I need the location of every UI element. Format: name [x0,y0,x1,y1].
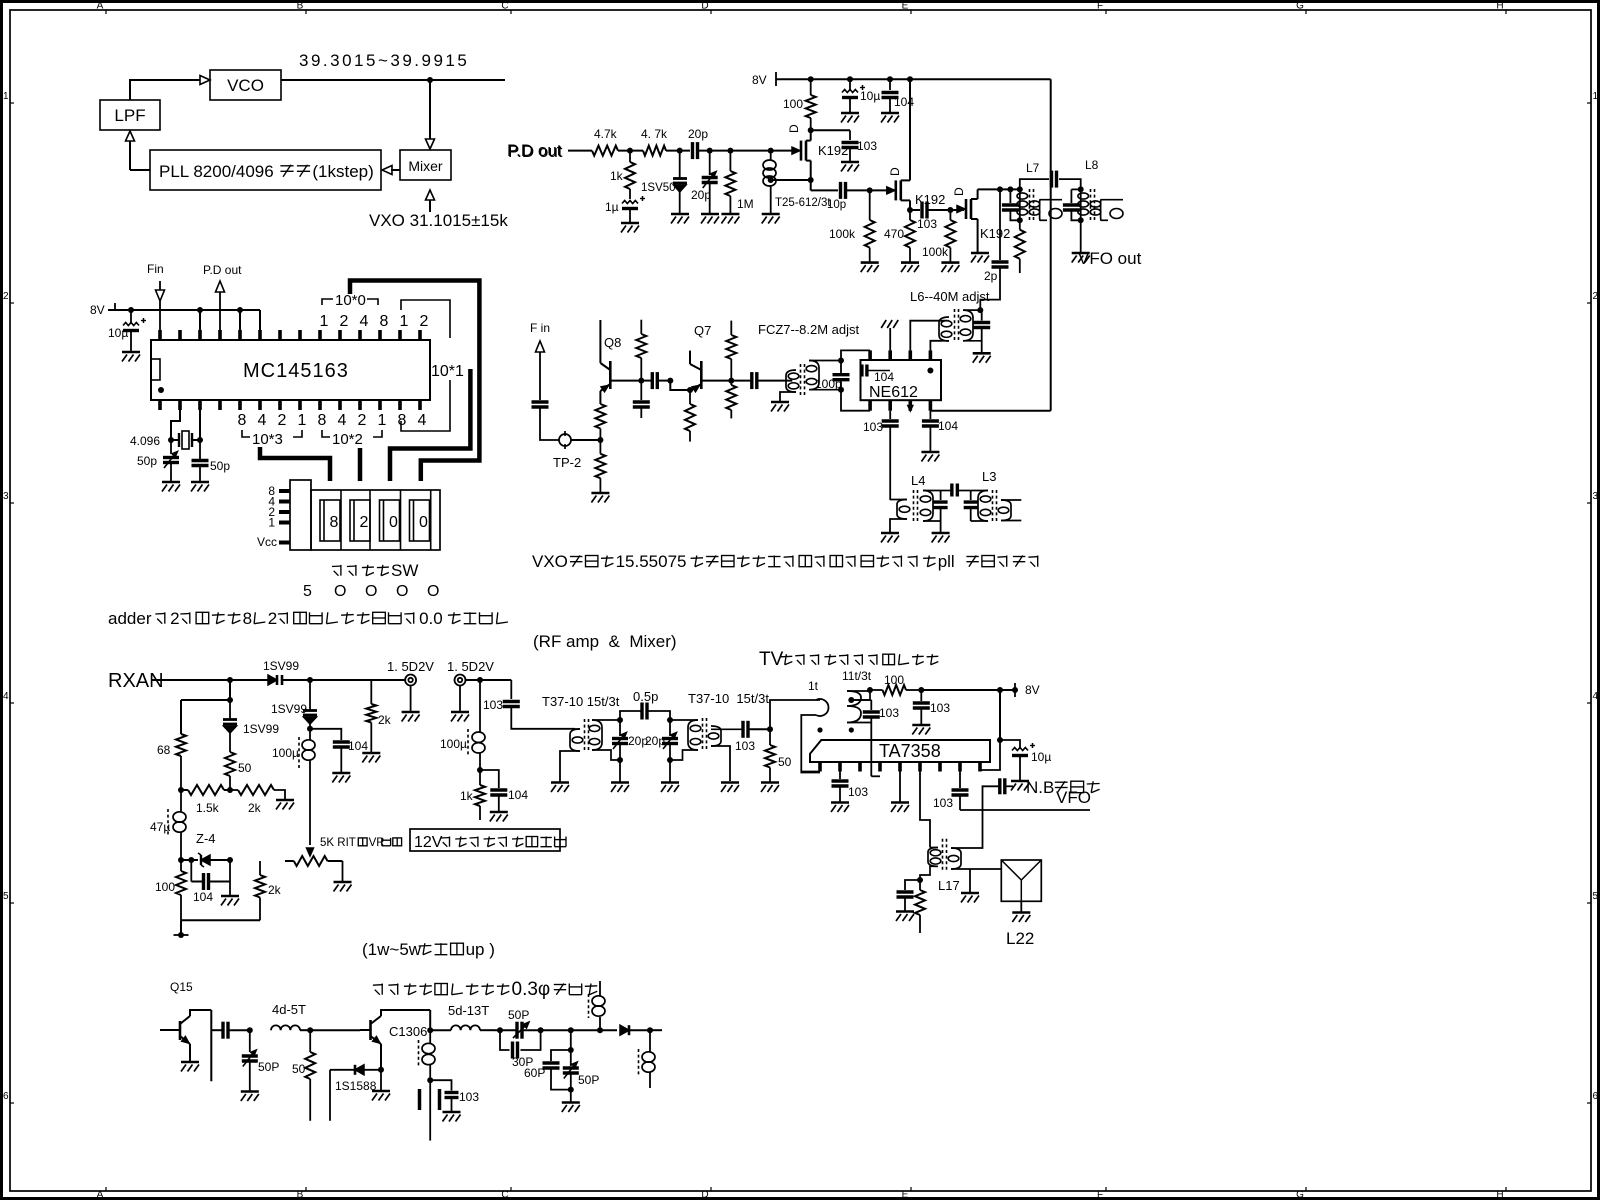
junction bottom common [178,932,184,938]
choke collector [419,1030,436,1080]
svg-text:50P: 50P [508,1008,529,1022]
transformer T37-10b link [708,726,741,781]
value 100 left [155,880,175,894]
junction T25-6 tap [768,177,774,183]
value 103 drain [857,139,877,153]
switch divider [430,490,432,550]
resistor 1.5k [181,785,230,795]
value 20p [688,127,708,141]
wire vcc to pin9 [980,740,1000,770]
wire tank pa ground [570,1090,572,1102]
pin TA7358 6 [918,762,922,772]
wire 50 to balun [770,700,820,729]
pin top 8 MC145163 [298,330,302,340]
value 100 ta [884,673,904,687]
junction Q8 emitter node [597,437,603,443]
wire 2p riser [999,189,1001,260]
ground pin5 [891,803,909,813]
capacitor 103 pin2 [832,772,849,803]
svg-text:103: 103 [857,139,877,153]
IC MC145163 [151,340,430,400]
wire RXAN line [152,679,268,681]
switch pin label 2 [268,505,275,519]
svg-text:2k: 2k [378,713,392,727]
pin label top 1 [400,313,409,330]
junction K1 source [808,177,814,183]
resistor 68 [176,734,186,790]
IC TA7358 [810,740,990,762]
wire tank to rfc [571,1029,600,1031]
ground L22 [1012,913,1030,923]
svg-text:L3: L3 [982,469,996,484]
pin label top 2 [340,313,349,330]
value 104 rxan [348,739,368,753]
switch body main [311,490,440,550]
svg-text:3: 3 [1593,491,1599,502]
junction crystal left [168,437,174,443]
svg-text:SW: SW [391,561,418,580]
transistor C1306 [360,1010,430,1070]
label L17 [938,878,960,893]
wire 103 to gate3 [928,209,964,211]
wire 8V drop ta [999,690,1001,740]
pin top 11 MC145163 [358,330,362,340]
wire coupling to L8 [1059,179,1081,189]
core L7 [1030,189,1034,220]
frame row label 6 right [1587,1091,1599,1103]
frame row label 1 left [3,91,14,103]
label VFO [1056,788,1091,807]
ground 2k rit [276,800,294,810]
ground zener [221,896,239,906]
value T25-6 [775,197,805,209]
value 2k top [378,713,392,727]
svg-text:2k: 2k [268,883,282,897]
wire from P.D out [568,150,592,152]
inductor 4d-5T [271,1025,310,1030]
resistor L7 bottom [1015,220,1025,273]
value 1SV99 shunt2 [271,702,307,716]
transformer L4 primary [890,500,910,520]
frame row label 3 left [3,491,14,503]
wire diode down [329,1070,331,1121]
junction 1M node [727,148,733,154]
ground T37b link [721,783,739,793]
resistor 100k first [865,190,875,262]
pin label bottom 1 [298,412,307,429]
wire connector2 right [466,679,512,681]
pin bottom MC145163 2 [178,400,182,410]
wire VCO output [281,79,505,81]
svg-text:6: 6 [1593,1091,1599,1102]
frame column label A top [97,1,106,15]
svg-text:47µ: 47µ [150,820,170,834]
svg-text:103: 103 [483,698,503,712]
wire 8V to pin3 [199,310,201,330]
svg-text:15.55075: 15.55075 [616,552,687,571]
ground below TP [591,493,609,503]
pin top 14 MC145163 [418,330,422,340]
resistor 1M [725,151,735,214]
inductor L8 primary [1078,189,1089,220]
value 103 pin2 [848,785,868,799]
svg-text:Q8: Q8 [604,335,621,350]
wire 104 branch [310,729,341,740]
svg-text:50: 50 [778,755,792,769]
svg-text:60P: 60P [524,1066,545,1080]
frame column label G bottom [1296,1187,1306,1200]
label 1t [808,679,819,693]
capacitor bias L17 [897,892,914,911]
switch digit window 8 [320,500,340,541]
block VCO [210,70,281,100]
value 50 pa [292,1062,306,1076]
resistor Q7 emitter [685,390,695,442]
value K192 first [818,143,848,158]
svg-text:NE612: NE612 [869,384,918,401]
wire source2 right [910,209,920,211]
svg-text:100µ: 100µ [440,737,467,751]
value 20p tank1 [628,734,648,748]
wire connector1 ground [410,686,412,713]
svg-text:1k: 1k [460,789,474,803]
capacitor Q8 base down [633,381,650,418]
capacitor 0.5p [620,703,670,721]
label P.D out (IC) [203,263,242,277]
transistor K192 second [887,79,910,210]
balun winding 11t3t [847,691,871,723]
label L6 adjust [910,289,990,304]
wire 104 feed branch [480,770,499,788]
frame column label D bottom [701,1187,711,1200]
svg-text:100: 100 [155,880,175,894]
svg-text:N.B: N.B [1026,778,1054,797]
frame row label 3 right [1587,491,1599,503]
pin bottom MC145163 14 [418,400,422,410]
capacitor 103 series rf [743,721,770,738]
balun winding 1t [801,699,828,773]
trimmer 20p tank1 [612,720,628,760]
junction tank2 bottom [667,757,673,763]
svg-text:68: 68 [157,743,171,757]
choke 100u feed [468,680,485,770]
junction L17 bias [917,877,923,883]
svg-text:G: G [1296,1190,1304,1200]
label 1.5D2V second [447,659,494,674]
svg-text:VXO: VXO [532,552,573,571]
arrow into Mixer [426,139,435,149]
label NB circuit [1026,778,1100,797]
svg-text:B: B [297,1,304,12]
wire NE612 pin5 to FCZ7 [841,390,870,411]
svg-text:O: O [365,583,377,600]
value 47u [150,820,170,834]
wire cap to gate [698,150,793,152]
junction coupling node [667,378,673,384]
svg-text:D: D [888,167,902,176]
label VXO 31.1015 [369,211,508,230]
ground 50 rf [761,783,779,793]
svg-text:VXO 31.1015±15k: VXO 31.1015±15k [369,211,508,230]
inductor L8 secondary [1090,200,1123,221]
svg-text:20p: 20p [691,188,711,202]
capacitor 60P [543,1050,571,1090]
wire L22 ground [1020,901,1022,912]
label 10*0 [335,292,366,309]
svg-text:C1306: C1306 [389,1024,427,1039]
svg-text:L7: L7 [1026,161,1040,175]
pin TA7358 9 [978,762,982,772]
value 50P tank [578,1073,599,1087]
junction 1k feed [477,767,483,773]
svg-text:470: 470 [884,227,904,241]
capacitor 103 pin8 [952,772,969,811]
resistor 2k bottom [255,861,265,920]
ground L4 secondary [932,533,950,543]
svg-text:1: 1 [378,412,387,429]
wire NE612 pin4 riser [930,341,943,351]
svg-text:50P: 50P [578,1073,599,1087]
note VXO circuit reuse [532,552,1038,571]
junction tank pa mid [568,1047,574,1053]
ground 103 pa [443,1112,461,1122]
pin bottom MC145163 13 [398,400,402,410]
connector 1.5D2V second [455,675,466,686]
label P.D out (block diagram) [507,141,562,160]
varactor 1SV99 series [268,675,310,685]
frame column label E bottom [902,1187,911,1200]
svg-text:L17: L17 [938,878,960,893]
value 1.5k [196,801,220,815]
label RXAN [108,670,164,692]
capacitor L4-L3 coupling [941,484,971,497]
svg-text:2: 2 [268,609,277,628]
label 10*2 [332,431,363,448]
svg-text:(1kstep): (1kstep) [312,162,373,181]
wire ta 8V rail [921,683,1015,697]
IC NE612 [861,360,942,401]
junction 100k node [867,187,873,193]
testpoint TP-2 [559,431,571,449]
label T37-10 second [688,691,769,706]
frame row label 2 right [1587,291,1599,303]
ground 10u [122,352,140,362]
switch digit window 0 [410,500,430,541]
switch pin stub [279,541,290,545]
capacitor 1u [622,196,645,223]
resistor 470 [905,210,915,263]
junction rail 104 [887,76,893,82]
wire NE612 pin3 riser [910,321,946,351]
core FCZ7 [801,364,805,395]
resistor 2k top [366,680,376,753]
pin label bottom 2 [358,412,367,429]
ground 1M [721,214,739,224]
ground T37a link [551,783,569,793]
pin TA7358 7 [938,762,942,772]
capacitor 10u rail [842,79,865,113]
svg-text:2: 2 [420,313,429,330]
pin top 3 MC145163 [198,330,202,340]
block Mixer [400,150,451,180]
capacitor 30P [500,1030,541,1058]
resistor 100k second [945,210,955,263]
junction L8 top [1078,186,1084,192]
wire output right [650,1029,662,1031]
pin label top 4 [360,313,369,330]
svg-text:TA7358: TA7358 [879,741,941,761]
frame column label A bottom [97,1187,106,1200]
svg-text:E: E [902,1,909,12]
zener diode [198,853,230,867]
block LPF [100,100,160,130]
wire connector2 ground [459,686,461,713]
ground 1u [621,223,639,233]
pin TA7358 8 [958,762,962,772]
wire 8V to pin5 [239,310,241,330]
wire zener row [181,859,198,861]
wire 8V rail [108,303,260,310]
svg-text:F: F [1097,1190,1103,1200]
label TV antenna balun core [759,649,938,670]
label L3 [982,469,996,484]
pin TA7358 3 [858,762,862,772]
svg-text:2: 2 [358,412,367,429]
value 20p tank2 [645,734,665,748]
switch pin label 1 [268,516,275,530]
svg-text:4d-5T: 4d-5T [272,1002,306,1017]
svg-text:4: 4 [360,313,369,330]
ground FCZ7 [771,402,789,412]
junction zener right [227,857,233,863]
junction left branch [227,697,233,703]
wire Q7 base [701,380,731,382]
ground 10u ta [1011,781,1029,791]
label Z-4 [196,831,216,846]
wire L7 coupling top [1020,179,1049,189]
pin NE612 top 1 [868,350,872,360]
ground connector1 [402,712,420,722]
value 103 feed [483,698,503,712]
pin top 13 MC145163 [398,330,402,340]
value 100u feed [440,737,467,751]
wire TP to emitter node [571,439,600,441]
junction 8V pin3 [197,307,203,313]
svg-text:1k: 1k [610,169,624,183]
switch pin stub [279,510,290,514]
switch digit window 0 [380,500,400,541]
svg-text:B: B [297,1190,304,1200]
svg-text:1: 1 [268,516,275,530]
label L22 [1006,929,1034,948]
wire FCZ7 to NE612 pin1 [841,350,870,360]
junction ta rail 8v [1012,687,1018,693]
capacitor 103 series [922,202,927,219]
svg-text:103: 103 [735,739,755,753]
label FCZ7 adjust [758,322,860,337]
wire 8V rail right [776,72,1051,86]
svg-text:1: 1 [1593,91,1599,102]
ground tank pa [562,1103,580,1113]
value 1k [610,169,624,183]
crystal 4.096 [171,431,200,449]
svg-text:Q7: Q7 [694,323,711,338]
value 2k rit [248,801,262,815]
bracket 10*1 [401,300,450,431]
label Q15 [170,980,193,994]
resistor Q7 base down [726,381,736,419]
svg-text:1µ: 1µ [605,200,619,214]
pin top 2 MC145163 [178,330,182,340]
wire pin b2 to crystal [171,410,180,440]
svg-text:4: 4 [258,412,267,429]
pin top 6 MC145163 [258,330,262,340]
junction 100k2 node [947,207,953,213]
wire L4 sec ground [940,521,942,532]
arrow VXO into Mixer [426,190,435,212]
svg-text:104: 104 [348,739,368,753]
pin bottom MC145163 9 [318,400,322,410]
wire base wire [310,1029,360,1031]
ground tank2 [661,783,679,793]
svg-text:4: 4 [1593,691,1599,702]
value 68 [157,743,171,757]
svg-text:TV: TV [759,649,784,670]
label 1.5D2V first [387,659,434,674]
wire to 2k and connector [310,679,405,681]
trimmer 50P match [495,1022,541,1039]
ground 104 rail [881,113,899,123]
value 4.7k [594,127,618,141]
frame row label 5 left [3,891,14,903]
svg-text:1: 1 [400,313,409,330]
svg-text:VCO: VCO [227,76,264,95]
label 8V right [752,73,767,87]
choke 100u rxan [299,729,315,845]
resistor 1k [625,151,635,199]
trimmer 50P pa [242,1030,258,1091]
frame row label 6 left [3,1091,14,1103]
value 1SV50 [641,182,676,194]
transistor K192 first [787,124,811,180]
value 10u [108,326,128,340]
transistor Q8 [600,320,610,404]
capacitor Q15 coupling [211,1022,250,1039]
label 1w to 5w [362,940,495,959]
junction tank cap node [1007,186,1013,192]
capacitor 103 balun [863,700,880,776]
svg-text:104: 104 [894,95,914,109]
wire pin6 to L17 [920,772,930,848]
junction 8V cap [128,307,134,313]
wire L17 sec ground [969,869,971,892]
value 20p shunt [691,188,711,202]
value 2p [984,269,998,283]
wire tank pa down [570,1030,572,1050]
svg-text:T25-6: T25-6 [775,197,805,209]
svg-text:O: O [427,583,439,600]
core L4 [914,490,918,521]
pin top 1 MC145163 [158,330,162,340]
pin TA7358 5 [898,762,902,772]
resistor 1k feed [475,770,485,820]
wire 8V to NE612 pin8 [930,410,1050,412]
wire to ground z [229,882,231,897]
svg-text:T37-10 15t/3t: T37-10 15t/3t [542,694,620,709]
frame column label E top [902,1,911,15]
svg-text:2: 2 [278,412,287,429]
chassis NE612 pin2 [881,320,898,350]
